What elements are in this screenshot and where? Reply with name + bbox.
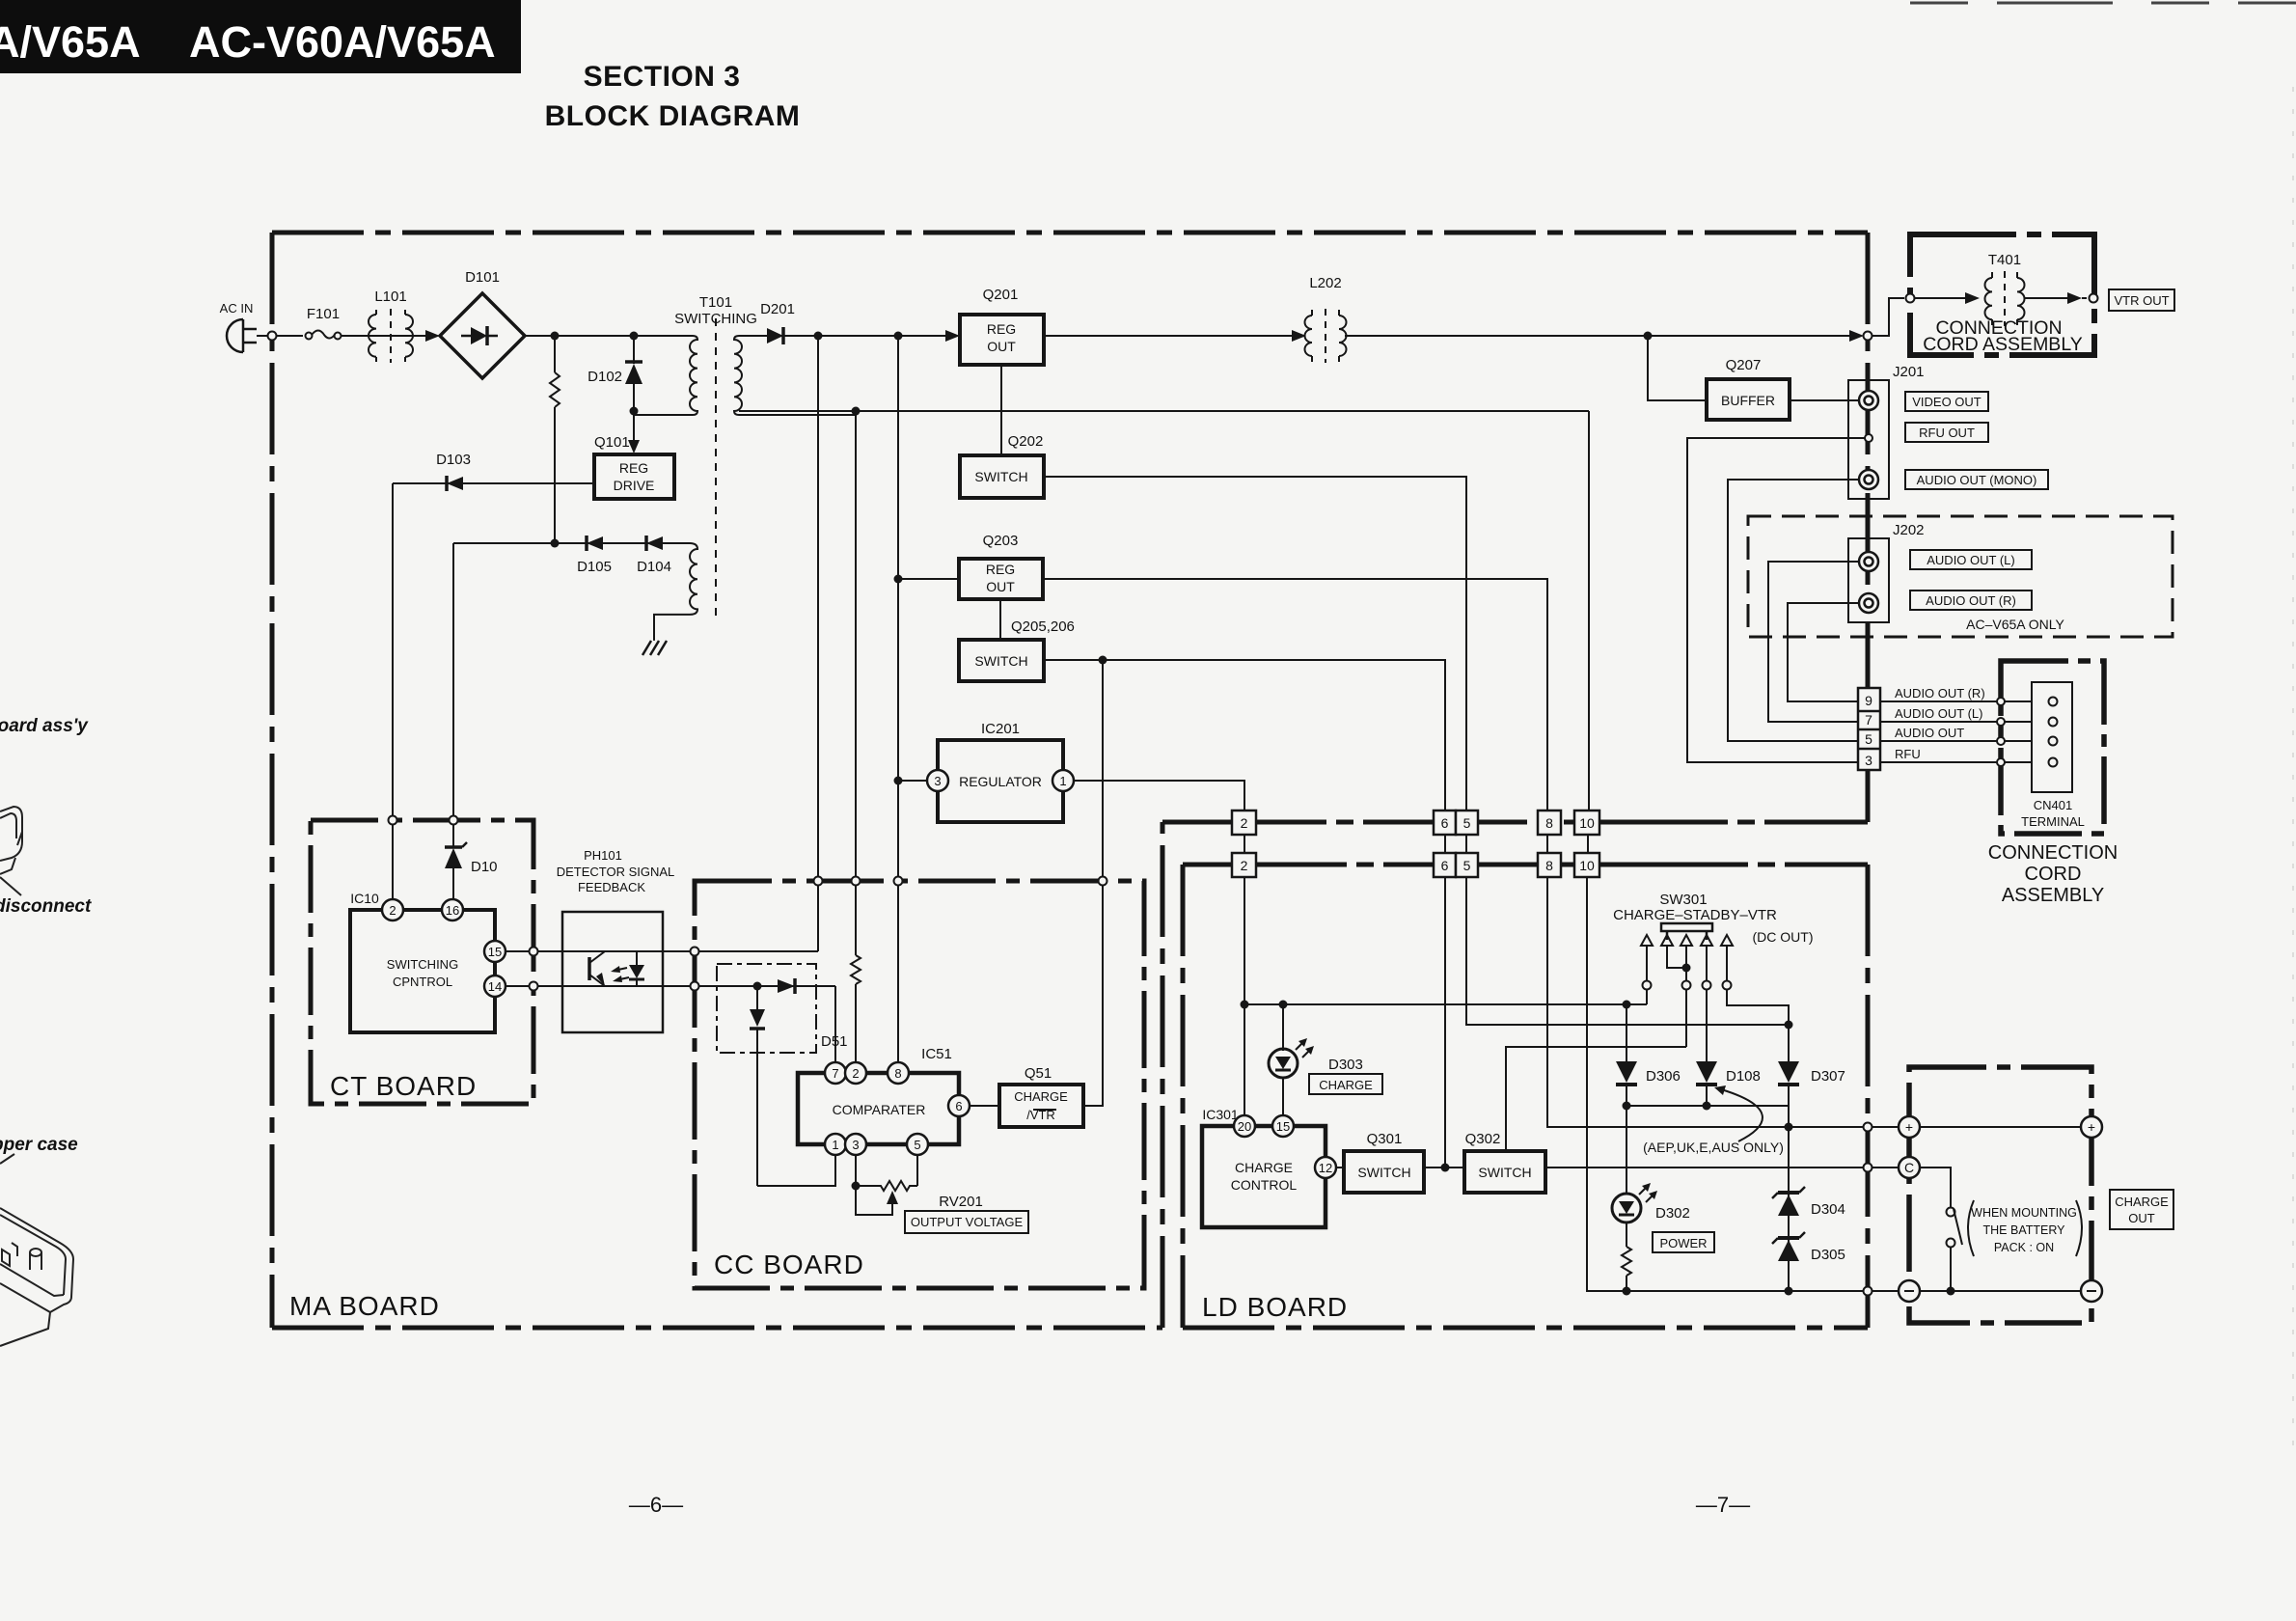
junction node M	[1644, 332, 1653, 341]
comparator IC51	[798, 1073, 959, 1144]
scan edge right	[2292, 87, 2294, 1447]
svg-text:CHARGE: CHARGE	[1319, 1078, 1373, 1092]
svg-text:CHARGE: CHARGE	[2115, 1195, 2169, 1209]
wire Q201 to L202	[1044, 335, 1304, 337]
node CC border	[691, 982, 699, 991]
terminal minus right	[2081, 1280, 2102, 1302]
wire arrow T401 to VTR node	[2024, 292, 2087, 304]
svg-text:5: 5	[1463, 815, 1471, 831]
wire pin6 to Q51	[970, 1105, 999, 1107]
resistor R101	[550, 336, 560, 543]
section title	[545, 61, 801, 132]
CN401 contact 3	[2049, 737, 2058, 746]
svg-text:D108: D108	[1726, 1068, 1761, 1085]
resistor R302	[1622, 1222, 1631, 1291]
CN401 contact 1	[2049, 698, 2058, 706]
connector 6 row2	[1434, 853, 1456, 877]
contact node 3	[1682, 981, 1691, 990]
svg-text:6: 6	[1441, 815, 1449, 831]
junction node W	[1785, 1287, 1793, 1296]
wire sw line3 lower	[1685, 990, 1687, 1047]
svg-text:—6—: —6—	[629, 1493, 683, 1517]
transformer T101	[634, 318, 856, 622]
diode D51a	[778, 978, 795, 994]
connector 2 row1	[1232, 810, 1256, 835]
label box AUDIO OUT (R)	[1910, 591, 2032, 610]
svg-text:(DC OUT): (DC OUT)	[1753, 929, 1814, 945]
wire minus rail riser	[1587, 411, 1900, 1291]
label box POWER	[1653, 1232, 1714, 1252]
svg-text:+: +	[1905, 1119, 1913, 1135]
pin 16	[442, 899, 463, 920]
svg-text:REGULATOR: REGULATOR	[959, 774, 1042, 789]
contact node 5	[1723, 981, 1732, 990]
svg-text:THE BATTERY: THE BATTERY	[1983, 1223, 2066, 1237]
node CC border	[691, 948, 699, 956]
wire audio mono detour	[1728, 480, 1860, 741]
diode D307	[1778, 1061, 1799, 1106]
wire feedback riser	[817, 336, 819, 951]
junction node E	[814, 332, 823, 341]
svg-text:8: 8	[894, 1066, 901, 1081]
arrow wire into Q101	[628, 411, 640, 453]
label T401 CONNECTION CORD ASSEMBLY	[1923, 317, 2082, 355]
svg-text:T401: T401	[1988, 252, 2021, 268]
label box VTR OUT	[2109, 289, 2174, 311]
connector J202	[1848, 538, 1889, 622]
junction node X	[1623, 1287, 1631, 1296]
svg-text:Q205,206: Q205,206	[1011, 618, 1075, 635]
T101 feedback winding	[654, 543, 697, 641]
junction node K	[753, 982, 762, 991]
junction node U	[1703, 1102, 1711, 1111]
wire pin14 to D51	[506, 985, 835, 987]
regulator IC201	[938, 740, 1063, 822]
svg-text:CPNTROL: CPNTROL	[393, 975, 452, 989]
svg-text:Q301: Q301	[1367, 1131, 1403, 1147]
connector 10 row1	[1574, 810, 1599, 835]
svg-text:5: 5	[914, 1138, 920, 1152]
svg-text:SECTION 3: SECTION 3	[584, 61, 741, 93]
wire T101 secondary to rail	[739, 410, 1589, 412]
svg-text:2: 2	[1241, 858, 1248, 873]
wire pin7 to CN401	[1880, 721, 2048, 723]
contact arrow 3	[1681, 935, 1692, 946]
svg-text:D105: D105	[577, 559, 612, 575]
svg-text:Q101: Q101	[594, 434, 630, 451]
terminal minus left	[1899, 1280, 1920, 1302]
wire D306 drop	[1626, 1004, 1627, 1061]
svg-text:J201: J201	[1893, 364, 1925, 380]
wire pin9 to CN401	[1880, 701, 2048, 702]
terminal CN401	[2032, 682, 2072, 792]
IC10 switching control	[350, 910, 495, 1032]
svg-text:IC10: IC10	[350, 891, 379, 906]
svg-text:15: 15	[488, 945, 502, 959]
buffer Q207	[1707, 379, 1790, 420]
regulator Q203	[959, 559, 1043, 599]
diode D104	[646, 536, 663, 551]
junction node R	[1682, 964, 1691, 973]
wire diode bottoms	[1626, 1105, 1789, 1107]
pin 3	[927, 770, 948, 791]
svg-text:board ass'y: board ass'y	[0, 716, 89, 736]
svg-text:AC IN: AC IN	[220, 301, 254, 316]
wire sw line5	[1726, 946, 1728, 981]
svg-text:Q302: Q302	[1465, 1131, 1501, 1147]
svg-text:BUFFER: BUFFER	[1721, 393, 1775, 408]
pin 3	[845, 1134, 866, 1155]
wire L101 to bridge	[369, 335, 434, 337]
svg-text:SWITCH: SWITCH	[1478, 1165, 1531, 1180]
pin 1	[1052, 770, 1074, 791]
node on CT border	[450, 816, 458, 825]
terminal plus left	[1899, 1116, 1920, 1138]
svg-text:6: 6	[955, 1099, 962, 1113]
wire sw line3	[1685, 946, 1687, 981]
label box OUTPUT VOLTAGE	[905, 1211, 1028, 1233]
svg-text:D10: D10	[471, 859, 498, 875]
svg-text:8: 8	[1545, 815, 1553, 831]
switch Q302	[1464, 1151, 1545, 1193]
svg-text:AUDIO OUT (R): AUDIO OUT (R)	[1926, 593, 2016, 608]
switch Q301	[1344, 1151, 1424, 1193]
svg-text:Q51: Q51	[1025, 1065, 1052, 1082]
T401 connection cord assembly border	[1910, 234, 2094, 355]
switch Q51	[999, 1085, 1083, 1127]
svg-text:(AEP,UK,E,AUS ONLY): (AEP,UK,E,AUS ONLY)	[1643, 1140, 1784, 1155]
svg-text:BLOCK DIAGRAM: BLOCK DIAGRAM	[545, 100, 801, 132]
svg-text:POWER: POWER	[1659, 1236, 1707, 1250]
svg-text:16: 16	[446, 903, 459, 918]
node CC top border	[1099, 877, 1107, 886]
label CONNECTION CORD ASSEMBLY	[1988, 842, 2118, 906]
wire down to IC10 pin2	[392, 483, 394, 899]
svg-text:IC301: IC301	[1202, 1107, 1239, 1122]
D51 dash-dot box	[717, 964, 816, 1053]
svg-text:C: C	[1904, 1160, 1914, 1175]
svg-text:L101: L101	[374, 288, 406, 305]
svg-text:D51: D51	[821, 1033, 848, 1050]
svg-text:D104: D104	[637, 559, 671, 575]
contact arrow 4	[1701, 935, 1712, 946]
connection cord assembly border (bottom)	[2001, 661, 2104, 834]
svg-text:OUT: OUT	[986, 579, 1015, 594]
scan edge mark top right	[1910, 2, 2296, 5]
svg-text:D304: D304	[1811, 1201, 1845, 1218]
svg-text:TERMINAL: TERMINAL	[2021, 814, 2085, 829]
wire arrow to T401 coil	[1915, 292, 1980, 304]
label box AUDIO OUT (L)	[1910, 550, 2032, 569]
pin header 9 7 5 3	[1858, 688, 1880, 770]
junction node Y	[1947, 1287, 1955, 1296]
svg-text:D306: D306	[1646, 1068, 1681, 1085]
junction node J	[894, 777, 903, 785]
battery switch	[1920, 1168, 1962, 1291]
label box RFU OUT	[1905, 423, 1988, 442]
label box CHARGE OUT	[2110, 1190, 2173, 1229]
svg-text:12: 12	[1319, 1161, 1332, 1175]
pin 2	[382, 899, 403, 920]
wire audio L detour	[1768, 562, 1860, 722]
switch SW301 body	[1661, 923, 1712, 940]
MA bus row 1	[1162, 820, 1868, 825]
margin leader line disconnect	[0, 877, 21, 895]
svg-text:AC–V65A ONLY: AC–V65A ONLY	[1966, 617, 2064, 632]
wire D105 rail	[453, 542, 690, 544]
connector 5 row2	[1456, 853, 1478, 877]
junction node T	[1623, 1102, 1631, 1111]
svg-text:SW301: SW301	[1659, 892, 1707, 908]
svg-text:MA BOARD: MA BOARD	[289, 1291, 440, 1321]
audio mono jack	[1859, 470, 1878, 489]
LD bus top border	[1183, 863, 1868, 867]
svg-text:10: 10	[1579, 815, 1595, 831]
svg-text:DETECTOR SIGNAL: DETECTOR SIGNAL	[557, 865, 675, 879]
contact node 4	[1703, 981, 1711, 990]
node on T401 right border	[2090, 294, 2098, 303]
wire to pin 3	[898, 780, 927, 782]
pin 14	[484, 975, 506, 997]
svg-text:F101: F101	[307, 306, 340, 322]
node CCA border pin9	[1997, 698, 2005, 705]
pointer arrow to D108	[1714, 1085, 1763, 1141]
svg-text:CONTROL: CONTROL	[1231, 1177, 1298, 1193]
svg-text:3: 3	[934, 774, 941, 788]
svg-text:REG: REG	[986, 562, 1015, 577]
resistor R201	[851, 955, 861, 1062]
potentiometer RV201	[856, 1155, 917, 1215]
pin 2	[845, 1062, 866, 1084]
junction node I	[1099, 656, 1107, 665]
wire plus across	[1920, 1126, 2081, 1128]
svg-text:Q202: Q202	[1008, 433, 1044, 450]
node CCA border pin5	[1997, 737, 2005, 745]
ground	[642, 641, 667, 655]
contact node 1	[1643, 981, 1652, 990]
fuse F101	[306, 331, 342, 340]
svg-text:OUT: OUT	[2128, 1211, 2155, 1225]
arrowhead at border	[1849, 330, 1864, 342]
regulator Q201	[960, 315, 1044, 365]
main wire bridge to T101	[525, 335, 693, 337]
svg-text:CT BOARD: CT BOARD	[330, 1071, 477, 1101]
arrowhead into Q201	[945, 330, 960, 342]
zener D305	[1772, 1232, 1805, 1261]
node CT border	[530, 982, 538, 991]
pin 1	[825, 1134, 846, 1155]
contact arrow 1	[1641, 935, 1653, 946]
audio L jack	[1859, 552, 1878, 571]
wire into T401	[1872, 298, 1904, 336]
contact arrow 2	[1661, 935, 1673, 946]
svg-text:CONNECTION: CONNECTION	[1988, 842, 2118, 864]
wire Q302 top branch	[1506, 1047, 1686, 1151]
connector 8 row1	[1538, 810, 1561, 835]
LED D303	[1269, 1004, 1314, 1115]
svg-text:1: 1	[832, 1138, 838, 1152]
diode D306	[1616, 1061, 1637, 1106]
svg-text:PH101: PH101	[584, 848, 622, 863]
connector 5 row1	[1456, 810, 1478, 835]
svg-text:CORD ASSEMBLY: CORD ASSEMBLY	[1923, 334, 2082, 355]
note WHEN MOUNTING	[1971, 1206, 2077, 1254]
wire Q301 to Q302	[1424, 1167, 1464, 1168]
svg-text:COMPARATER: COMPARATER	[833, 1102, 926, 1117]
pin 8	[888, 1062, 909, 1084]
svg-text:J202: J202	[1893, 522, 1925, 538]
connector 10 row2	[1574, 853, 1599, 877]
wire Q203 input	[898, 578, 959, 580]
junction node N	[1241, 1001, 1249, 1009]
svg-text:AUDIO OUT (L): AUDIO OUT (L)	[1927, 553, 2015, 567]
switch Q202	[960, 455, 1044, 498]
svg-text:SWITCH: SWITCH	[1357, 1165, 1410, 1180]
svg-text:RFU OUT: RFU OUT	[1919, 426, 1975, 440]
connector 6 row1	[1434, 810, 1456, 835]
pin 7	[825, 1062, 846, 1084]
wire LD plus branch	[1244, 1003, 1647, 1005]
wire T101 secondary top lead	[739, 335, 772, 337]
switch Q205,206	[959, 640, 1044, 681]
CT board border	[311, 820, 533, 1104]
node LD border C	[1864, 1164, 1872, 1172]
arrowhead into L202	[1292, 330, 1306, 342]
audio R jack	[1859, 593, 1878, 613]
diode D108	[1696, 1061, 1717, 1106]
wire pin15 feedback	[506, 950, 818, 952]
connector 2 row2	[1232, 853, 1256, 877]
connector J201	[1848, 380, 1889, 499]
pin 5	[907, 1134, 928, 1155]
svg-text:D307: D307	[1811, 1068, 1845, 1085]
svg-text:FEEDBACK: FEEDBACK	[578, 880, 645, 894]
svg-text:REG: REG	[619, 460, 648, 476]
svg-text:SWITCHING: SWITCHING	[387, 957, 458, 972]
node on CT border	[389, 816, 397, 825]
zener D304	[1772, 1187, 1805, 1216]
label box VIDEO OUT	[1905, 392, 1988, 411]
svg-text:IC51: IC51	[921, 1046, 952, 1062]
note parens	[1968, 1200, 2082, 1256]
wire L202 to MA border	[1345, 335, 1856, 337]
wire F101 to L101	[342, 335, 369, 337]
node CCA border pin3	[1997, 758, 2005, 766]
diode D105	[587, 536, 603, 551]
wire main riser to IC51 pin8	[897, 336, 899, 1062]
wire pin7 riser	[834, 986, 836, 1062]
junction node S	[1785, 1021, 1793, 1030]
svg-text:CHARGE: CHARGE	[1014, 1089, 1068, 1104]
wire Q101 to D103 corner	[393, 482, 594, 484]
photocoupler PH101	[562, 912, 663, 1032]
junction node F	[894, 332, 903, 341]
svg-text:REG: REG	[987, 321, 1016, 337]
junction node H	[894, 575, 903, 584]
J202 dashed box	[1748, 516, 2173, 637]
junction node G	[551, 539, 560, 548]
node CC top border	[894, 877, 903, 886]
wire D201 to Q201	[818, 335, 951, 337]
svg-text:7: 7	[1865, 712, 1872, 728]
junction node V	[1785, 1123, 1793, 1132]
AC IN plug	[227, 319, 257, 352]
CN401 contact 4	[2049, 758, 2058, 767]
transformer T401	[1985, 271, 2025, 326]
junction node A	[551, 332, 560, 341]
wire Q302 to battery C	[1545, 1167, 1900, 1168]
node CC top border	[852, 877, 861, 886]
wire rail riser to IC51 pin2	[855, 411, 857, 955]
svg-text:Q203: Q203	[983, 533, 1019, 549]
bridge rectifier D101	[440, 293, 525, 378]
wire pin5 to CN401	[1880, 740, 2048, 742]
svg-text:14: 14	[488, 979, 502, 994]
svg-text:2: 2	[389, 903, 396, 918]
pin 15	[1272, 1115, 1294, 1137]
svg-text:CORD: CORD	[2025, 864, 2082, 885]
wire sw line4 to D108	[1706, 990, 1708, 1061]
LED D302	[1612, 1183, 1657, 1223]
svg-text:disconnect: disconnect	[0, 896, 92, 917]
svg-text:AUDIO OUT: AUDIO OUT	[1895, 726, 1964, 740]
svg-text:RV201: RV201	[939, 1194, 983, 1210]
wire sw line1	[1646, 946, 1648, 981]
rfu node	[1865, 434, 1872, 442]
wire D302 drop	[1626, 1106, 1627, 1195]
svg-text:WHEN MOUNTING: WHEN MOUNTING	[1971, 1206, 2077, 1220]
node LD border plus	[1864, 1123, 1872, 1132]
junction node O	[1279, 1001, 1288, 1009]
pin 6	[948, 1095, 970, 1116]
terminal plus right	[2081, 1116, 2102, 1138]
svg-text:CN401: CN401	[2034, 798, 2072, 812]
svg-text:PACK : ON: PACK : ON	[1994, 1241, 2054, 1254]
wire pin12 to Q301	[1336, 1167, 1344, 1168]
wire minus across	[1920, 1290, 2081, 1292]
node on border	[1864, 332, 1872, 341]
margin leader line upper case	[0, 1154, 14, 1164]
svg-text:8: 8	[1545, 858, 1553, 873]
svg-text:SWITCH: SWITCH	[974, 469, 1027, 484]
video jack	[1859, 391, 1878, 410]
svg-text:1: 1	[1059, 774, 1066, 788]
svg-text:CC BOARD: CC BOARD	[714, 1250, 864, 1279]
svg-text:VIDEO OUT: VIDEO OUT	[1912, 395, 1982, 409]
charge control IC301	[1202, 1126, 1326, 1227]
node CCA border pin7	[1997, 718, 2005, 726]
svg-text:2: 2	[1241, 815, 1248, 831]
junction node Q	[1441, 1164, 1450, 1172]
wire AC to border	[257, 335, 303, 337]
svg-text:+: +	[2088, 1119, 2095, 1135]
wire sw line1 lower	[1646, 990, 1648, 1004]
margin sketch upper case	[0, 1208, 73, 1346]
wire audio R detour	[1788, 603, 1860, 701]
zener D10	[445, 842, 467, 899]
terminal C	[1899, 1157, 1920, 1178]
junction node C	[630, 407, 639, 416]
svg-text:D103: D103	[436, 452, 471, 468]
svg-text:T101: T101	[699, 294, 732, 311]
svg-text:D305: D305	[1811, 1247, 1845, 1263]
node LD border minus	[1864, 1287, 1872, 1296]
wire Q51 riser	[1083, 660, 1103, 1106]
diode D103	[447, 476, 463, 491]
svg-text:5: 5	[1865, 731, 1872, 747]
junction node D	[852, 407, 861, 416]
diode D51b	[750, 986, 765, 1186]
